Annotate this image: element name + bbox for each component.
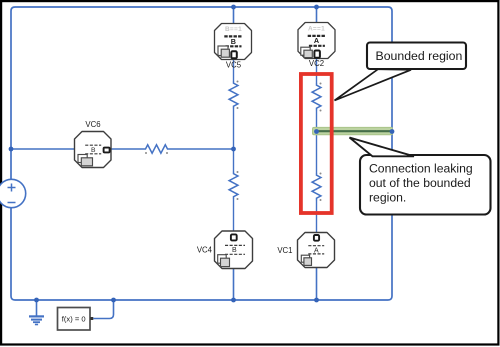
svg-text:VC6: VC6	[85, 120, 100, 129]
svg-text:out of the bounded: out of the bounded	[369, 176, 471, 190]
ground G1	[29, 300, 44, 325]
port mark R4 bottom	[320, 199, 322, 201]
svg-text:B: B	[91, 147, 96, 154]
wire R2 to VC4	[233, 199, 235, 235]
port mark R5 right	[166, 152, 168, 154]
junction node ground	[34, 298, 39, 303]
svg-text:VC2: VC2	[309, 59, 324, 68]
block VC6	[75, 132, 112, 168]
port mark R3 bottom	[320, 110, 322, 112]
wire VC5 to R1	[233, 60, 235, 82]
svg-text:B: B	[232, 247, 237, 254]
block VC1	[298, 233, 335, 268]
junction node green left	[314, 129, 319, 134]
voltage source V1	[0, 179, 26, 207]
wire node to R2	[233, 149, 235, 172]
wire outer loop	[11, 7, 392, 300]
port mark R1 bottom	[237, 107, 239, 109]
wire VC6 branch	[11, 148, 75, 150]
resistor R5	[144, 145, 170, 153]
junction node green right	[390, 129, 395, 134]
wire top stub VC5	[233, 7, 235, 24]
green highlighted connection	[313, 127, 393, 134]
junction node top VC5	[231, 5, 236, 10]
svg-text:A: A	[314, 36, 319, 45]
wire VC6 to R5	[111, 148, 144, 150]
port mark R1 top	[237, 81, 239, 83]
resistor R3	[312, 83, 321, 111]
svg-text:f(x) = 0: f(x) = 0	[62, 315, 86, 324]
callout Connection leaking	[350, 138, 491, 215]
label VC5	[226, 60, 242, 69]
port mark R2 top	[237, 171, 239, 173]
resistor R2	[229, 172, 238, 200]
svg-text:A==1: A==1	[308, 25, 325, 32]
svg-text:VC5: VC5	[226, 60, 242, 69]
wire solver to bus	[93, 300, 113, 319]
svg-text:VC1: VC1	[277, 246, 292, 255]
block VC4	[215, 231, 253, 269]
svg-text:Bounded region: Bounded region	[376, 49, 463, 63]
block VC5	[215, 24, 252, 60]
red bounded region box	[301, 74, 332, 213]
junction node VC4 bottom	[231, 298, 236, 303]
wire VC4 to bottom bus	[233, 269, 235, 301]
junction node top VC2	[314, 5, 319, 10]
wire VC2 to R3	[316, 59, 318, 84]
label VC1	[277, 246, 292, 255]
junction node solver	[111, 298, 116, 303]
wire VC1 to bottom bus	[316, 268, 318, 301]
svg-text:B: B	[231, 37, 236, 46]
wire top stub VC2	[316, 7, 318, 23]
svg-text:B==1: B==1	[225, 26, 242, 33]
junction node mid VC5/VC4 column	[231, 147, 236, 152]
port mark R5 left	[145, 152, 147, 154]
wire R5 to node	[170, 148, 234, 150]
label VC6	[85, 120, 100, 129]
resistor R4	[312, 173, 321, 201]
wire R3 to node B	[316, 111, 318, 132]
label VC2	[309, 59, 324, 68]
wire node B to R4	[316, 132, 318, 174]
svg-text:region.: region.	[369, 190, 406, 204]
svg-text:VC4: VC4	[197, 246, 213, 255]
solver block f(x)=0	[58, 308, 94, 331]
callout Bounded region	[335, 43, 467, 101]
resistor R1	[229, 81, 238, 109]
wire R1 to node	[233, 109, 235, 150]
svg-text:Connection leaking: Connection leaking	[369, 161, 473, 175]
junction node VC1 bottom	[314, 298, 319, 303]
junction node at left branch	[9, 147, 14, 152]
wire R4 to VC1	[316, 201, 318, 237]
port mark R4 top	[320, 173, 322, 175]
label VC4	[197, 246, 213, 255]
port mark R2 bottom	[237, 198, 239, 200]
block VC2	[298, 23, 335, 59]
port mark R3 top	[320, 83, 322, 85]
svg-text:A: A	[314, 247, 319, 254]
